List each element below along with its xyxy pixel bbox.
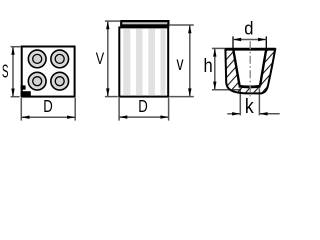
dimension V: [96, 21, 121, 97]
corner notch mark: [21, 85, 31, 96]
dimension D (left view): [21, 96, 75, 120]
svg-text:S: S: [2, 61, 9, 82]
svg-text:V: V: [96, 49, 105, 68]
dimension d: [233, 19, 266, 49]
hole bottom-left: [28, 72, 46, 90]
dimension v: [169, 25, 194, 97]
svg-text:d: d: [244, 19, 253, 39]
centerline: [249, 41, 251, 96]
square body outline: [22, 47, 75, 97]
hole top-left: [28, 50, 46, 68]
crucible outer profile with hatching: [225, 49, 275, 93]
crucible cavity (white): [233, 48, 266, 86]
dimension S: [2, 47, 21, 97]
hole top-right: [51, 50, 69, 68]
svg-text:v: v: [177, 54, 184, 75]
svg-text:D: D: [43, 96, 53, 116]
hole bottom-right: [51, 72, 69, 90]
cavity bottom (thick): [239, 85, 261, 89]
cap rim: [121, 21, 168, 25]
dimension D (middle view): [119, 96, 169, 120]
svg-text:k: k: [245, 96, 255, 118]
cylinder shading stripes: [123, 28, 165, 95]
svg-text:h: h: [204, 55, 213, 77]
svg-text:D: D: [138, 96, 148, 116]
dimension k: [227, 96, 279, 118]
dimension h bottom extension line (under part): [212, 89, 241, 91]
dimension h: [204, 48, 225, 89]
dimension k extension lines (under part): [240, 88, 259, 115]
rim top edge: [225, 48, 276, 51]
cavity side walls: [233, 48, 266, 85]
cylinder body: [119, 27, 168, 96]
